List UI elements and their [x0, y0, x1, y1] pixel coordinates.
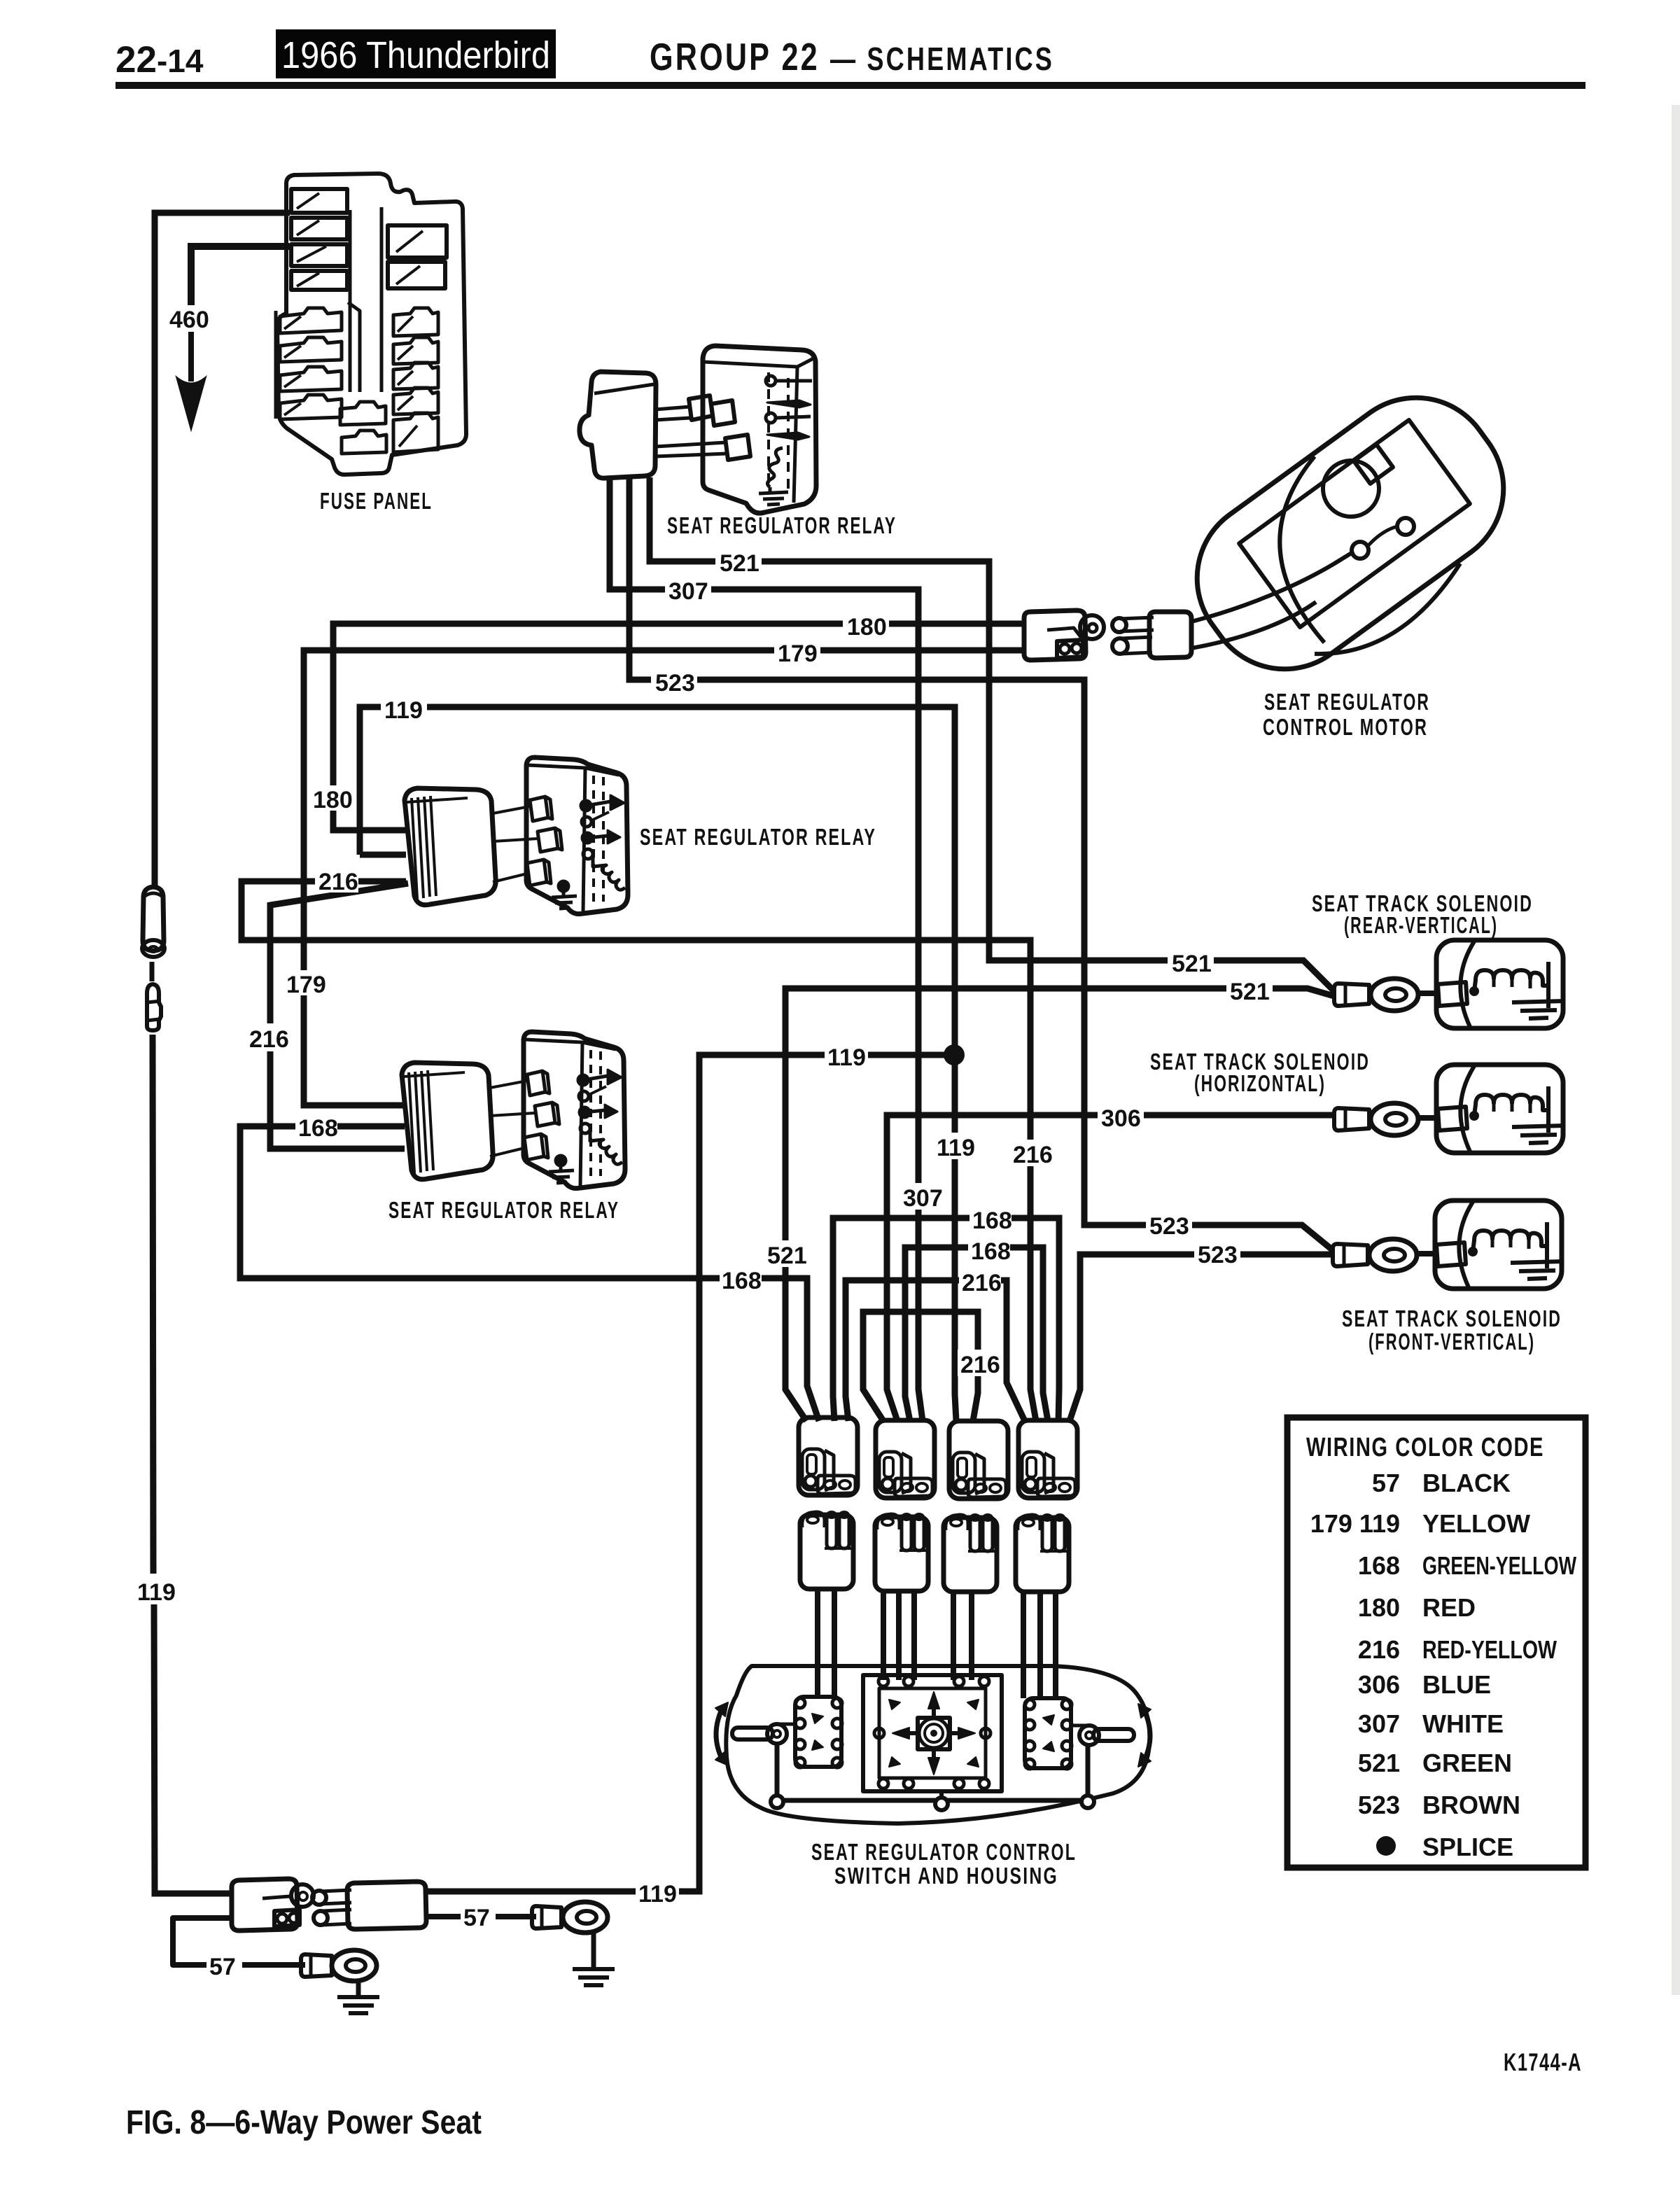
header rule: [115, 82, 1585, 89]
svg-text:119: 119: [937, 1135, 975, 1161]
connector socket S2: [875, 1514, 928, 1591]
socket S2 wires down: [883, 1593, 914, 1680]
clip LM2: [342, 430, 386, 454]
solenoid body: [1436, 940, 1563, 1028]
right ring terminal: [532, 1906, 561, 1928]
svg-text:57: 57: [1372, 1469, 1400, 1497]
svg-text:BROWN: BROWN: [1422, 1791, 1520, 1819]
svg-text:BLUE: BLUE: [1422, 1670, 1491, 1699]
svg-text:1966 Thunderbird: 1966 Thunderbird: [281, 34, 550, 76]
svg-text:306: 306: [1101, 1105, 1141, 1132]
wire 216 upper (relay2 to switch C4): [241, 881, 1036, 1421]
fuse cell right col 2: [388, 262, 445, 288]
BOTTOM: [126, 1879, 615, 2141]
wire 180 relay1-area to relay2: [333, 624, 1023, 830]
svg-text:(REAR-VERTICAL): (REAR-VERTICAL): [1344, 912, 1498, 938]
clip LR1: [393, 308, 438, 336]
connector plug C2: [876, 1420, 934, 1498]
label 521 left of switch: [764, 1240, 808, 1267]
svg-text:168: 168: [298, 1115, 338, 1142]
motor brush contacts: [1352, 542, 1368, 559]
svg-text:SEAT REGULATOR RELAY: SEAT REGULATOR RELAY: [640, 824, 876, 850]
connector plug C4: [1018, 1420, 1077, 1498]
wire 119 top run: [360, 707, 956, 1421]
left ground symbol: [356, 1981, 361, 1996]
solenoid coil: [1469, 986, 1479, 996]
svg-text:BLACK: BLACK: [1422, 1469, 1511, 1497]
SWITCH HOUSING: [715, 1666, 1151, 1889]
relay1 connector wire bar lower: [655, 442, 727, 456]
svg-text:523: 523: [1198, 1242, 1238, 1268]
wire 216 bridge C1-C4: [846, 1280, 1025, 1421]
svg-text:460: 460: [169, 307, 209, 333]
lower-left clip group: [276, 302, 360, 419]
svg-text:119: 119: [137, 1579, 176, 1606]
connector socket S3: [944, 1515, 997, 1592]
center block contacts: [878, 1676, 888, 1686]
arrowhead 460: [177, 378, 205, 428]
wire 460 feed from fuse panel: [155, 213, 290, 886]
svg-text:521: 521: [1172, 951, 1212, 977]
joystick arrows: [932, 1708, 936, 1716]
label 119 vertical mid: [934, 1133, 977, 1159]
svg-text:216: 216: [960, 1352, 1000, 1378]
K2 internal pins: [592, 776, 595, 903]
svg-text:K1744-A: K1744-A: [1504, 2049, 1582, 2076]
svg-text:168: 168: [972, 1207, 1012, 1234]
solenoid L3 front-vertical: [1333, 1200, 1562, 1289]
label 216 near C3: [958, 1350, 1001, 1376]
splice legend dot: [1376, 1836, 1396, 1856]
label 119 bottom: [636, 1879, 679, 1905]
socket S1 wires down: [818, 1589, 834, 1697]
wire continues to bottom corner: [154, 1604, 231, 1893]
center block: [863, 1675, 1002, 1791]
svg-text:GROUP 22 — SCHEMATICS: GROUP 22 — SCHEMATICS: [650, 35, 1054, 78]
svg-text:521: 521: [767, 1242, 807, 1269]
wire 307 from relay1 down to connector C2: [610, 479, 923, 1421]
K2 ground: [558, 881, 569, 892]
right contact block: [1025, 1698, 1071, 1768]
clip LR3: [393, 363, 438, 389]
label 179 top: [774, 639, 820, 664]
motor inner frame: [1239, 420, 1470, 627]
label 521 top: [715, 549, 762, 574]
label 216 bridge: [959, 1268, 1001, 1294]
K2 ribbed connector block: [405, 788, 496, 905]
svg-text:179: 179: [286, 972, 326, 998]
clip LR5: [393, 413, 438, 452]
left contact block: [795, 1697, 841, 1767]
relay K3 (lower seat regulator relay): [402, 1032, 625, 1189]
relay1 coil: [767, 448, 783, 487]
wire 216 lower (relay2 diag to relay3): [270, 883, 408, 1149]
svg-text:216: 216: [1013, 1142, 1053, 1168]
clip LL1: [280, 308, 342, 333]
svg-text:523: 523: [655, 670, 695, 696]
wire 460 branch with arrow: [191, 246, 289, 322]
label 523 to solenoid3 upper: [1146, 1212, 1192, 1237]
motor armature circle: [1323, 461, 1379, 517]
svg-text:216: 216: [962, 1270, 1002, 1296]
svg-text:SEAT REGULATOR: SEAT REGULATOR: [1264, 689, 1430, 715]
svg-text:SEAT REGULATOR CONTROL: SEAT REGULATOR CONTROL: [811, 1839, 1077, 1865]
switch housing outline: [726, 1666, 1149, 1823]
svg-text:307: 307: [668, 578, 708, 605]
svg-text:180: 180: [1358, 1593, 1400, 1622]
label 216 left lower: [246, 1023, 288, 1051]
SOLENOIDS: [1150, 890, 1564, 1354]
title bar 1966 Thunderbird: [276, 29, 556, 78]
svg-text:SPLICE: SPLICE: [1422, 1833, 1513, 1861]
svg-text:180: 180: [847, 614, 887, 640]
svg-text:WHITE: WHITE: [1422, 1709, 1504, 1738]
relay1 ground: [759, 487, 788, 505]
svg-text:216: 216: [318, 869, 358, 895]
motor connector left plug: [1024, 610, 1086, 660]
color code box: [1287, 1417, 1585, 1868]
label 521 to solenoid1 lower: [1226, 977, 1273, 1002]
svg-text:179 119: 179 119: [1310, 1509, 1400, 1538]
relay1 harness connector body: [580, 372, 656, 478]
svg-text:168: 168: [1358, 1551, 1400, 1580]
wire 168 bridge C2-C4: [905, 1247, 1048, 1421]
wire 523 lower (switch C4 to solenoid3): [1070, 1254, 1333, 1421]
svg-text:WIRING COLOR CODE: WIRING COLOR CODE: [1306, 1433, 1544, 1462]
label 307 mid: [900, 1183, 945, 1210]
svg-text:216: 216: [1358, 1635, 1400, 1664]
relay1 plug 1: [689, 395, 713, 420]
svg-text:FIG. 8—6-Way Power Seat: FIG. 8—6-Way Power Seat: [126, 2104, 482, 2141]
svg-text:168: 168: [971, 1238, 1011, 1265]
inline connector female (bullet socket): [143, 887, 164, 951]
RELAY2 RELAY3: [388, 757, 876, 1223]
motor end cap arc: [1280, 456, 1324, 643]
svg-text:180: 180: [313, 787, 353, 813]
label 180 left: [311, 785, 351, 811]
motor armature square: [1354, 444, 1393, 484]
clip LL2: [280, 337, 342, 362]
label 168 long: [720, 1266, 762, 1292]
solenoid end cap arc: [1460, 941, 1474, 1027]
label 168 relay3: [295, 1114, 337, 1139]
clip LR2: [393, 337, 438, 364]
socket S3 wires down: [953, 1593, 972, 1680]
fuse panel center post: [350, 207, 381, 392]
solenoid terminal block: [1438, 982, 1467, 1006]
clip LR4: [393, 388, 438, 414]
svg-text:119: 119: [638, 1881, 677, 1907]
motor bottom arc: [1315, 563, 1460, 654]
fuse panel outline: [277, 174, 466, 475]
bus wiring: [777, 1744, 1088, 1800]
solenoid L1 rear-vertical: [1334, 940, 1564, 1028]
joystick: [918, 1718, 950, 1749]
K2 block-shell links: [493, 806, 538, 882]
svg-text:YELLOW: YELLOW: [1422, 1509, 1530, 1538]
wire 57 left with ground: [173, 1918, 232, 1965]
label 168 bridge b: [968, 1236, 1010, 1263]
svg-text:SWITCH AND HOUSING: SWITCH AND HOUSING: [834, 1863, 1058, 1889]
right ground symbol: [591, 1933, 596, 1968]
svg-text:57: 57: [209, 1954, 236, 1980]
label 523 to solenoid3 lower: [1194, 1240, 1240, 1266]
wire 168 bridge C1-C4: [833, 1218, 1059, 1421]
relay1 plug 2: [711, 400, 735, 426]
svg-text:523: 523: [1149, 1213, 1189, 1240]
svg-text:57: 57: [463, 1905, 490, 1931]
svg-text:521: 521: [720, 550, 759, 577]
K2 relay shell: [526, 757, 628, 914]
motor connector right plug: [1149, 612, 1191, 658]
svg-text:SEAT REGULATOR RELAY: SEAT REGULATOR RELAY: [388, 1197, 619, 1223]
label 306: [1098, 1104, 1144, 1129]
color code rows: [1310, 1469, 1576, 1861]
svg-text:168: 168: [722, 1268, 762, 1294]
clip LL3: [280, 367, 342, 391]
RELAY1: [580, 346, 897, 538]
label 179 left: [284, 970, 325, 995]
left ring terminal: [301, 1954, 332, 1977]
label 523 top: [651, 668, 697, 694]
LEFT WIRE: [137, 213, 290, 1893]
svg-text:GREEN-YELLOW: GREEN-YELLOW: [1422, 1551, 1576, 1580]
K2 plugs: [530, 797, 552, 821]
connector socket S1: [800, 1512, 853, 1589]
svg-text:22-14: 22-14: [115, 39, 204, 80]
svg-text:CONTROL MOTOR: CONTROL MOTOR: [1263, 714, 1428, 740]
ring terminal lug: [1334, 983, 1369, 1006]
label 119 mid: [825, 1043, 868, 1068]
CENTER WIRES: [240, 477, 1334, 1907]
relay1 internal pins: [767, 372, 770, 490]
wire below male pin: [153, 1035, 153, 1574]
svg-text:216: 216: [249, 1026, 289, 1053]
svg-text:523: 523: [1358, 1791, 1400, 1819]
fuse cell slash rect 1: [291, 189, 347, 213]
label 307 top: [665, 577, 711, 602]
right lever arc arrow: [1144, 1709, 1150, 1761]
svg-text:307: 307: [1358, 1709, 1400, 1738]
right edge scan shading: [1672, 105, 1680, 1995]
connector socket S4: [1016, 1515, 1069, 1592]
wire 523 from relay1 to solenoid3: [629, 479, 1333, 1250]
relay K2 (middle seat regulator relay): [405, 757, 628, 914]
svg-text:(FRONT-VERTICAL): (FRONT-VERTICAL): [1368, 1329, 1535, 1354]
left lever arc arrow: [716, 1708, 722, 1760]
solenoid ground hatch: [1512, 1001, 1564, 1018]
K2 coil: [593, 857, 625, 890]
label 521 to solenoid1 upper: [1168, 949, 1214, 974]
label 460: [168, 305, 216, 332]
wire 521 lower (switch C1 to solenoid1): [785, 988, 1334, 1421]
motor lead wires: [1191, 552, 1354, 622]
inline connector male (pin): [147, 984, 161, 1030]
clip LM1: [340, 402, 386, 425]
svg-text:119: 119: [384, 697, 423, 724]
MOTOR: [0, 0, 1, 1]
label 216 vertical mid: [1010, 1140, 1053, 1166]
fuse cell slash rect 3: [291, 244, 347, 266]
svg-text:179: 179: [778, 640, 818, 667]
wire 119 switch feed: [426, 1055, 953, 1891]
connector plug C3: [949, 1421, 1008, 1499]
bottom male connector: [232, 1879, 297, 1931]
wire 168 (relay3 to switch C1): [240, 1126, 819, 1421]
COLOR CODE: [1287, 1417, 1585, 2076]
svg-text:(HORIZONTAL): (HORIZONTAL): [1194, 1070, 1326, 1096]
svg-text:SEAT REGULATOR RELAY: SEAT REGULATOR RELAY: [667, 512, 897, 538]
right lever: [1093, 1729, 1134, 1741]
SWITCH CONNECTORS: [799, 1417, 1077, 1698]
label 180 top: [843, 612, 889, 638]
wire 521 from relay1 to solenoid1: [650, 477, 1334, 991]
socket S4 wires down: [1023, 1593, 1056, 1698]
stub between inline connectors: [150, 962, 155, 981]
clip LL4: [280, 395, 342, 419]
label 216 left upper: [315, 867, 358, 892]
bottom female connector: [347, 1882, 426, 1929]
svg-text:307: 307: [903, 1185, 943, 1212]
svg-text:521: 521: [1230, 979, 1270, 1005]
relay1 connector wire bar upper: [655, 407, 690, 420]
splice dot: [944, 1044, 965, 1065]
svg-text:521: 521: [1358, 1749, 1400, 1777]
svg-text:RED: RED: [1422, 1593, 1476, 1622]
solenoid L2 horizontal: [1334, 1065, 1564, 1153]
fuse cell slash rect 4: [291, 271, 347, 290]
wire 179 to relay3: [304, 650, 1023, 1105]
MOTOR: [1024, 367, 1534, 740]
FUSE PANEL AREA: [276, 174, 466, 514]
label 168 bridge a: [969, 1205, 1011, 1232]
left lever: [732, 1728, 773, 1739]
svg-text:RED-YELLOW: RED-YELLOW: [1422, 1635, 1557, 1664]
wire 57 right with ground: [426, 1914, 461, 1919]
svg-text:FUSE PANEL: FUSE PANEL: [320, 488, 433, 514]
wire 216 bus C2-C3: [863, 1312, 978, 1421]
svg-text:306: 306: [1358, 1670, 1400, 1699]
label 119 top: [381, 696, 427, 721]
relay1 plug 3: [725, 435, 750, 460]
svg-text:SEAT TRACK SOLENOID: SEAT TRACK SOLENOID: [1342, 1305, 1562, 1331]
svg-text:GREEN: GREEN: [1422, 1749, 1512, 1777]
wire 306 (switch C2 to solenoid2): [887, 1115, 1334, 1421]
motor body: [1166, 367, 1534, 700]
fuse cell slash rect 2: [291, 218, 347, 239]
connector plug C1: [799, 1417, 857, 1495]
fuse cell right col 1: [388, 225, 447, 258]
relay1 relay body: [703, 346, 816, 513]
svg-text:119: 119: [827, 1044, 866, 1071]
